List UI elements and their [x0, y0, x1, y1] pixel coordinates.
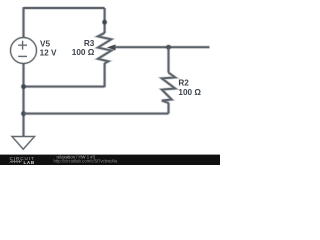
- wire R2 bottom lead: [167, 103, 170, 114]
- node junction dot A: [21, 84, 27, 90]
- wire middle horizontal node A to R3 bottom: [24, 85, 105, 88]
- node junction dot D: [166, 44, 172, 50]
- svg-text:http://circuitlab.com/c/5t7vcb: http://circuitlab.com/c/5t7vcbwd4a: [54, 159, 118, 164]
- potentiometer R3 wiper arrowhead: [107, 44, 116, 50]
- svg-text:12 V: 12 V: [40, 49, 57, 58]
- potentiometer R3 zigzag body: [98, 33, 111, 63]
- ground symbol: [12, 137, 35, 150]
- wire V5 bottom vertical to ground: [22, 64, 25, 137]
- svg-text:100 Ω: 100 Ω: [72, 48, 95, 57]
- wire top horizontal: [24, 6, 105, 9]
- svg-text:LAB: LAB: [24, 160, 35, 165]
- wire left vertical to V5 top: [22, 7, 25, 38]
- footer logo sawtooth: [10, 161, 23, 163]
- wire R3 bottom lead: [103, 63, 106, 87]
- wire wiper horizontal: [115, 46, 210, 49]
- wire bottom horizontal: [24, 112, 169, 115]
- V5 plus symbol: [18, 41, 27, 50]
- wire R2 top lead: [167, 47, 170, 72]
- node junction dot C on R3 top lead: [102, 19, 108, 25]
- voltage source V5 circle: [11, 38, 37, 64]
- svg-text:100 Ω: 100 Ω: [178, 88, 201, 97]
- resistor R2 zigzag body: [162, 73, 175, 103]
- svg-text:V5: V5: [40, 40, 50, 49]
- svg-text:R2: R2: [178, 79, 189, 88]
- svg-text:R3: R3: [84, 39, 95, 48]
- wire R3 top lead: [103, 8, 106, 33]
- V5 minus symbol: [18, 55, 27, 57]
- footer bar: [0, 155, 220, 165]
- node junction dot B: [21, 111, 27, 117]
